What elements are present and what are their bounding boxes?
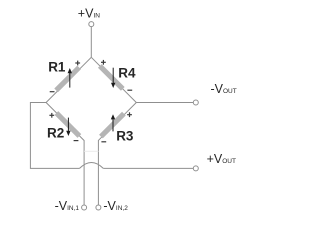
arrow R1 (resistance increase) xyxy=(68,68,72,88)
arrow R3 (resistance increase) xyxy=(111,114,115,131)
wire: bridge side bottom-right (R3 branch) with -VIN,2 drop xyxy=(98,103,136,206)
wire: faint link between bridge bottom nodes xyxy=(84,150,98,152)
svg-text:-VIN,1: -VIN,1 xyxy=(55,199,80,213)
terminal +VIN xyxy=(89,22,94,27)
svg-text:+VIN: +VIN xyxy=(78,6,100,20)
polarity - R4 xyxy=(127,89,132,91)
svg-text:-VOUT: -VOUT xyxy=(211,82,237,96)
polarity - R1 xyxy=(50,91,55,93)
svg-text:R2: R2 xyxy=(47,125,64,140)
wire: bridge side top-left (R1 branch) xyxy=(46,57,91,102)
terminal -VIN,2 xyxy=(96,205,101,210)
wire: bridge side bottom-left (R2 branch) with -VIN,1 drop xyxy=(46,103,84,206)
svg-text:R4: R4 xyxy=(118,65,136,80)
resistor R3 xyxy=(99,112,126,139)
wire: crossover hop over -VIN leads xyxy=(80,163,104,169)
wire: left loop from bridge left node to +VOUT rail xyxy=(30,103,79,169)
polarity + R1 xyxy=(75,61,80,66)
svg-text:R3: R3 xyxy=(116,129,134,144)
terminal +VOUT xyxy=(193,166,198,171)
terminal -VOUT xyxy=(193,100,198,105)
polarity - R3 xyxy=(101,141,106,143)
wire: bridge side top-right (R4 branch) xyxy=(91,57,136,102)
resistor R2 xyxy=(55,111,82,138)
arrow R4 (resistance decrease) xyxy=(111,68,115,88)
resistor R4 xyxy=(98,64,125,91)
polarity + R3 xyxy=(127,112,132,117)
wire: +VIN lead into bridge top xyxy=(90,27,92,58)
wire: +VOUT rail right segment xyxy=(103,167,193,169)
polarity - R2 xyxy=(74,140,79,142)
wire: bridge right node to -VOUT terminal xyxy=(136,102,193,104)
polarity + R2 xyxy=(49,113,54,118)
resistor R1 xyxy=(54,66,81,93)
terminal -VIN,1 xyxy=(82,205,87,210)
polarity + R4 xyxy=(101,60,106,65)
svg-text:-VIN,2: -VIN,2 xyxy=(103,199,128,213)
svg-text:R1: R1 xyxy=(48,60,66,75)
arrow R2 (resistance decrease) xyxy=(66,118,70,136)
svg-text:+VOUT: +VOUT xyxy=(207,152,236,166)
